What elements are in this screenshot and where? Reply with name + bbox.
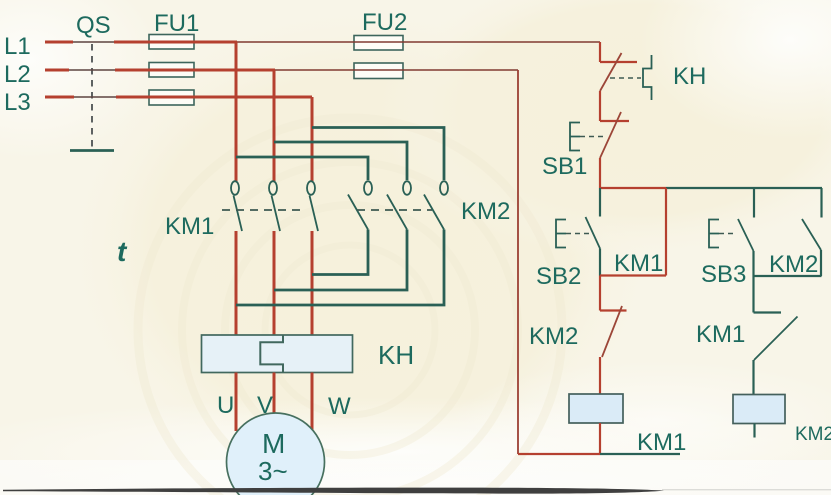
disconnect switch QS bar — [70, 149, 114, 152]
wire L3 drop to KM1 pole 3 — [311, 97, 314, 181]
bottom rail red segment — [518, 453, 600, 455]
contactor KM2 mechanical link — [357, 209, 432, 211]
svg-text:SB2: SB2 — [536, 263, 581, 290]
wire control feed from L1 — [599, 42, 601, 62]
control rail red segment — [600, 187, 666, 189]
wire L1 switch blade QS thin segment — [73, 41, 114, 43]
wire L2 switch blade QS thin segment — [69, 69, 115, 71]
wire KH to motor U — [235, 373, 238, 432]
start button SB2 (NO) — [586, 188, 601, 276]
svg-text:KM1: KM1 — [165, 213, 214, 240]
holding contact KM1 branch wire — [600, 188, 666, 276]
svg-text:U: U — [217, 392, 234, 419]
contactor KM1 pole 2 contact — [269, 181, 280, 231]
left return wire from L2 — [517, 70, 519, 454]
wire L2 phase line thick segment — [45, 69, 69, 72]
svg-text:L2: L2 — [4, 61, 31, 88]
thermal contact KH (NC) — [600, 53, 637, 91]
contactor KM2 pole 2 contact — [387, 181, 411, 229]
thermal relay KH box — [202, 335, 353, 373]
thermal relay KH heater element — [260, 335, 283, 373]
wire KM2 pole 2 crossover output — [274, 230, 407, 291]
wire KM1 pole 2 output — [273, 231, 276, 335]
svg-text:L3: L3 — [4, 89, 31, 116]
wire KM2 feed from L3 node — [312, 128, 444, 181]
svg-text:KM2: KM2 — [529, 323, 578, 350]
svg-text:KM1: KM1 — [637, 429, 686, 456]
svg-text:KH: KH — [673, 63, 706, 90]
svg-text:KM1: KM1 — [614, 250, 663, 277]
svg-text:KM2: KM2 — [795, 424, 831, 445]
wire SB1 to rail — [599, 158, 601, 188]
SB3 actuator — [709, 220, 736, 248]
interlock contact KM2 (NC) — [600, 276, 627, 395]
wire KM1 pole 1 output — [235, 231, 238, 335]
svg-text:L1: L1 — [4, 33, 31, 60]
svg-text:KM2: KM2 — [769, 251, 818, 278]
svg-text:FU2: FU2 — [362, 9, 407, 36]
stop button SB1 (NC) — [600, 112, 629, 158]
KH trip linkage — [610, 77, 641, 79]
svg-text:W: W — [328, 393, 351, 420]
fuse FU2 pole 1 — [354, 36, 403, 51]
svg-text:SB3: SB3 — [701, 261, 746, 288]
svg-text:SB1: SB1 — [542, 153, 587, 180]
wire KH to motor W — [311, 373, 314, 431]
wire KM2 feed from L2 node — [274, 142, 407, 180]
holding contact KM2 (NO) — [754, 188, 822, 276]
wire L2 phase line thin segment to control — [275, 69, 518, 71]
svg-text:QS: QS — [76, 12, 111, 39]
KH actuator bracket — [643, 55, 652, 100]
contactor KM1 pole 3 contact — [307, 181, 318, 231]
wire L1 phase line thin segment to control — [237, 41, 600, 43]
fuse FU1 pole 3 — [149, 90, 194, 105]
fuse FU2 pole 2 — [354, 63, 403, 79]
wire L3 switch blade QS thin segment — [74, 96, 116, 98]
control rail teal segment — [666, 187, 822, 189]
wire L2 drop to KM1 pole 2 — [273, 70, 276, 181]
wire coil KM1 to rail — [599, 423, 601, 454]
bottom rail teal segment — [600, 453, 680, 455]
wire L3 phase line thick segment — [45, 96, 74, 99]
contactor KM2 pole 3 contact — [424, 181, 448, 229]
SB2 actuator — [556, 220, 592, 248]
start button SB3 (NO) — [738, 188, 754, 276]
fuse FU1 pole 1 — [149, 35, 194, 50]
wire L1 drop to KM1 pole 1 — [235, 42, 238, 181]
svg-text:3~: 3~ — [258, 456, 288, 486]
wire L1 phase line thick segment — [45, 41, 73, 44]
svg-text:KH: KH — [378, 340, 414, 370]
wire coil KM2 lead — [753, 424, 755, 438]
interlock contact KM1 (NC) — [754, 276, 798, 395]
wire KM2 pole 1 crossover output — [312, 230, 368, 275]
svg-text:KM1: KM1 — [696, 321, 745, 348]
wire KH to motor V — [273, 373, 276, 414]
wire KH contact to SB1 — [599, 91, 601, 121]
svg-text:FU1: FU1 — [154, 10, 199, 37]
wire L1 phase line thick segment after QS — [114, 41, 237, 44]
disconnect switch QS linkage — [91, 44, 93, 150]
wire L2 phase line thick segment after QS — [115, 69, 275, 72]
contactor KM1 pole 1 contact — [231, 181, 242, 231]
contactor KM1 mechanical link — [222, 209, 300, 211]
fuse FU1 pole 2 — [149, 63, 194, 78]
contactor KM2 pole 1 contact — [348, 181, 372, 229]
wire L3 phase line thick segment after QS — [116, 96, 312, 99]
wire KM1 pole 3 output — [311, 231, 314, 335]
wire KM2 feed from L1 node — [236, 157, 368, 180]
motor M 3-phase — [227, 413, 325, 495]
svg-text:M: M — [262, 428, 285, 459]
coil KM1 — [569, 394, 623, 423]
screen bottom edge — [3, 488, 664, 494]
wire KM2 pole 3 crossover output — [236, 230, 444, 306]
svg-text:KM2: KM2 — [461, 198, 510, 225]
coil KM2 — [733, 395, 785, 424]
SB1 actuator — [570, 123, 606, 151]
